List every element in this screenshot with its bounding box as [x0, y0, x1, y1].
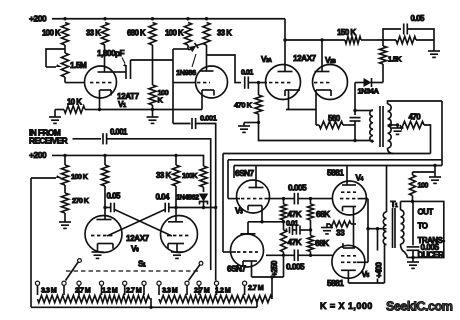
svg-text:+400: +400	[374, 261, 383, 278]
capacitor 0.04 (cross coupling)	[156, 193, 218, 213]
svg-text:100 K: 100 K	[165, 29, 184, 38]
wire V1b plate to 0.01 (over top)	[207, 55, 242, 83]
resistor 68K (upper)	[308, 199, 331, 230]
triode V6a (12AX7)	[85, 208, 122, 253]
svg-text:RECEIVER: RECEIVER	[29, 136, 68, 146]
svg-text:33 K: 33 K	[217, 29, 232, 38]
svg-text:DUCER: DUCER	[418, 251, 444, 260]
triode V2B (12AX7)	[313, 40, 348, 125]
resistor 2.7M (group B end)	[245, 283, 272, 303]
resistor 47K (lower)	[281, 222, 302, 256]
label IN FROM RECEIVER	[29, 128, 68, 146]
label 12AX7 V6	[126, 233, 150, 254]
triode V1a (12AT7)	[85, 45, 117, 110]
svg-text:SeekIC.com: SeekIC.com	[386, 300, 453, 314]
svg-text:+200: +200	[29, 150, 47, 160]
wire feedback from divider	[30, 178, 32, 307]
svg-text:1.2 M: 1.2 M	[215, 286, 231, 295]
transformer T1 secondary	[401, 201, 414, 257]
label T1	[391, 199, 399, 209]
wire 100 top to ground	[413, 164, 437, 177]
ground (V6b cathode)	[171, 252, 183, 258]
svg-text:5881: 5881	[327, 278, 344, 288]
wire secondary centertap	[388, 123, 400, 126]
label K = X 1,000	[320, 301, 373, 311]
wire V3b cathode to +250 node	[252, 257, 284, 277]
wire V1a grid	[65, 77, 85, 83]
wire +400 to T1 centertap	[368, 228, 387, 230]
svg-text:0.05: 0.05	[107, 192, 121, 201]
svg-text:2.7 M: 2.7 M	[126, 286, 142, 295]
svg-text:33 K: 33 K	[86, 29, 101, 38]
label 12AX7 (V2)	[293, 53, 317, 63]
resistor 33K (V6a plate)	[101, 155, 171, 207]
resistor 1.5K	[379, 40, 402, 64]
beam tetrode V5 (5881)	[332, 224, 365, 283]
resistor 2.7M (group B)	[187, 286, 217, 303]
svg-text:680 K: 680 K	[127, 29, 146, 38]
svg-text:47K: 47K	[288, 209, 302, 219]
svg-text:V2B: V2B	[325, 55, 336, 65]
wire rail drop to zener	[203, 155, 204, 166]
wire V2 cathode bus	[286, 109, 316, 111]
label OUT TO TRANSDUCER	[418, 208, 446, 260]
resistor 100K (V1a plate divider)	[42, 17, 69, 45]
svg-text:+250: +250	[270, 260, 279, 277]
svg-text:TRANS-: TRANS-	[418, 236, 446, 245]
wire 470K node to transformer return	[259, 123, 356, 141]
wire plate line L3	[234, 101, 442, 178]
beam tetrode V4 (5881)	[332, 166, 366, 225]
wire +200 rail drop to V2 plates	[284, 19, 286, 40]
resistor 680K	[127, 17, 156, 45]
svg-text:1N4862: 1N4862	[176, 193, 199, 202]
svg-text:100: 100	[418, 181, 429, 190]
svg-text:2.7 M: 2.7 M	[75, 286, 91, 295]
svg-text:S1: S1	[138, 259, 146, 269]
label SeekIC.com watermark	[386, 300, 453, 314]
svg-text:1N986: 1N986	[176, 68, 196, 77]
svg-text:2.7 M: 2.7 M	[248, 283, 264, 292]
node +200 supply rail (top)	[29, 14, 285, 24]
resistor 100K (zener feed)	[200, 166, 207, 192]
transformer interstage secondary	[388, 101, 443, 154]
svg-text:100K: 100K	[182, 171, 198, 180]
svg-text:100 K: 100 K	[71, 172, 89, 181]
svg-text:V6: V6	[131, 244, 139, 254]
capacitor 0.005 (output)	[407, 201, 440, 257]
svg-text:K = X 1,000: K = X 1,000	[320, 301, 373, 311]
label 12AT7 V1	[117, 91, 139, 109]
resistor 68K (lower)	[308, 230, 330, 255]
wire +400 screen feed	[357, 199, 370, 263]
svg-text:0.001: 0.001	[200, 114, 218, 123]
svg-text:68K: 68K	[316, 209, 330, 219]
wire V5 plate to T1	[348, 245, 384, 284]
svg-text:3.3 M: 3.3 M	[162, 286, 178, 295]
svg-text:0.01: 0.01	[241, 68, 253, 77]
wire +400 supply	[374, 227, 383, 283]
capacitor 0.005 (V4 coupling)	[265, 183, 333, 205]
ground (10K return)	[49, 110, 64, 124]
capacitor 0.05 (cross coupling)	[103, 192, 121, 213]
svg-text:1N34A: 1N34A	[358, 87, 380, 96]
svg-text:1.2 M: 1.2 M	[102, 286, 118, 295]
wire output loop	[411, 201, 444, 259]
capacitor 0.001 (V1b grid to divider)	[173, 114, 218, 281]
svg-text:470 K: 470 K	[234, 101, 253, 110]
capacitor 0.01 (decoupling)	[286, 219, 312, 236]
label V4	[356, 173, 364, 183]
label V2A	[261, 54, 272, 64]
resistor 100K (second)	[165, 17, 192, 45]
resistor 150K	[337, 28, 377, 44]
svg-text:0.005: 0.005	[286, 262, 305, 272]
svg-text:1.5K: 1.5K	[388, 55, 402, 64]
wire cathode bus V1	[98, 108, 202, 111]
label 6SN7 (top)	[235, 168, 254, 178]
resistor 33K (V1a plate load)	[86, 17, 109, 45]
svg-text:1,800pF: 1,800pF	[97, 48, 125, 58]
diode 1N34A	[355, 64, 383, 96]
terminal posts (divider taps group A)	[35, 281, 146, 295]
resistor 100K (cathode divider)	[149, 45, 169, 105]
resistor 3.3M	[38, 286, 65, 303]
transformer T1 primary	[383, 166, 386, 245]
resistor 33 (cathode bias)	[330, 221, 356, 238]
switch S1 label	[138, 259, 146, 269]
ground (output)	[407, 258, 419, 269]
switch S1 pole (right)	[189, 261, 203, 280]
ground (V6a cathode)	[92, 252, 104, 258]
triode V3b (6SN7)	[223, 222, 264, 277]
resistor 3.3M (group B)	[159, 286, 187, 303]
label 5881 (V4)	[327, 168, 344, 178]
diode 1N4862 (zener)	[176, 193, 208, 208]
wire cross coupling diagonals	[107, 210, 172, 237]
svg-text:100 K: 100 K	[42, 29, 61, 38]
svg-text:V3: V3	[235, 206, 243, 216]
wire V1b grid node vertical	[173, 49, 196, 124]
svg-text:10 K: 10 K	[67, 98, 82, 107]
wire chain A to bus	[149, 299, 152, 309]
label 6SN7 (bottom)	[227, 264, 246, 274]
svg-text:6SN7: 6SN7	[235, 168, 254, 178]
potentiometer 100K (feedback)	[31, 155, 89, 185]
triode V6b (12AX7)	[161, 208, 198, 253]
resistor 100 (output load)	[410, 172, 429, 203]
resistor 1.2M	[102, 286, 125, 303]
svg-text:33: 33	[336, 228, 345, 238]
ground (output top)	[429, 177, 441, 183]
switch S1 dashed frame	[66, 270, 200, 272]
capacitor 1,800pF	[97, 48, 173, 79]
diode 1N986	[176, 43, 207, 78]
wire V3a cathode node	[248, 220, 285, 223]
transformer interstage primary	[355, 110, 373, 142]
svg-text:0.005: 0.005	[288, 183, 307, 193]
resistor 470	[400, 113, 431, 154]
transformer interstage core	[380, 106, 383, 147]
resistor 2.7M (second)	[125, 286, 150, 303]
terminal posts (divider taps group B)	[157, 281, 247, 295]
wire feedback line L1	[223, 154, 431, 253]
resistor 2.7M	[64, 286, 102, 303]
svg-text:3.3 M: 3.3 M	[41, 286, 57, 295]
resistor 10K	[64, 98, 100, 114]
resistor 47K (upper)	[281, 199, 302, 222]
wire AVC node vertical	[354, 83, 356, 116]
svg-text:6SN7: 6SN7	[227, 264, 246, 274]
svg-text:47K: 47K	[288, 237, 302, 247]
svg-text:0.05: 0.05	[411, 14, 425, 23]
triode V1b (12AT7)	[196, 45, 228, 110]
capacitor 0.01 (V2A grid coupling)	[241, 68, 267, 89]
capacitor (primary shunt)	[350, 109, 361, 142]
svg-text:OUT: OUT	[418, 208, 434, 217]
svg-text:V4: V4	[356, 173, 364, 183]
resistor 100K (V6b plate)	[172, 155, 198, 207]
resistor 470K	[234, 84, 262, 114]
svg-text:1.5M: 1.5M	[70, 60, 87, 70]
resistor 560	[316, 114, 355, 129]
triode V3a (6SN7)	[228, 166, 270, 222]
svg-text:12AX7: 12AX7	[126, 233, 150, 243]
ground (470K)	[238, 114, 260, 132]
label V3	[235, 206, 243, 216]
label 5881 (V5)	[327, 278, 344, 288]
wire feedback line L2	[228, 160, 442, 199]
wire V2 plate rail	[283, 38, 345, 41]
ground (270K)	[59, 213, 71, 228]
resistor 33K (V1b plate load)	[203, 17, 232, 45]
ground (100K divider)	[147, 105, 159, 123]
svg-text:+200: +200	[29, 14, 47, 24]
ground (tone network)	[428, 40, 440, 57]
transformer T1 core	[393, 208, 396, 248]
svg-text:68K: 68K	[315, 238, 329, 248]
triode V2A (12AX7)	[266, 40, 301, 110]
label V2B	[325, 55, 336, 65]
svg-text:2.7 M: 2.7 M	[194, 286, 210, 295]
capacitor 0.05 (top)	[383, 14, 434, 40]
resistor (0.05 shunt)	[377, 36, 434, 43]
resistor 1.2M (group B)	[215, 286, 245, 303]
capacitor 0.005 (V5 coupling)	[266, 250, 333, 272]
svg-text:150 K: 150 K	[337, 28, 356, 37]
resistor 270K	[61, 185, 89, 213]
svg-text:5881: 5881	[327, 168, 344, 178]
label V5	[362, 269, 370, 279]
svg-text:0.001: 0.001	[110, 128, 128, 137]
svg-text:12AX7: 12AX7	[293, 53, 317, 63]
svg-text:TO: TO	[418, 222, 428, 231]
wire grid-node top link	[173, 48, 188, 50]
ground (secondary centertap)	[392, 125, 404, 134]
svg-text:33 K: 33 K	[156, 171, 171, 180]
switch S1 pole (left)	[66, 259, 82, 281]
node +200 supply rail (lower)	[29, 150, 203, 160]
ground (33 bias)	[321, 224, 333, 234]
svg-text:V2A: V2A	[261, 54, 272, 64]
wire bottom bus	[31, 299, 257, 307]
svg-text:270 K: 270 K	[72, 196, 90, 205]
wire +250 riser	[270, 260, 279, 299]
capacitor 0.001 (receiver input)	[73, 128, 211, 271]
potentiometer 1.5M	[46, 45, 87, 77]
svg-text:T1: T1	[391, 199, 399, 209]
svg-text:0.04: 0.04	[156, 193, 170, 202]
